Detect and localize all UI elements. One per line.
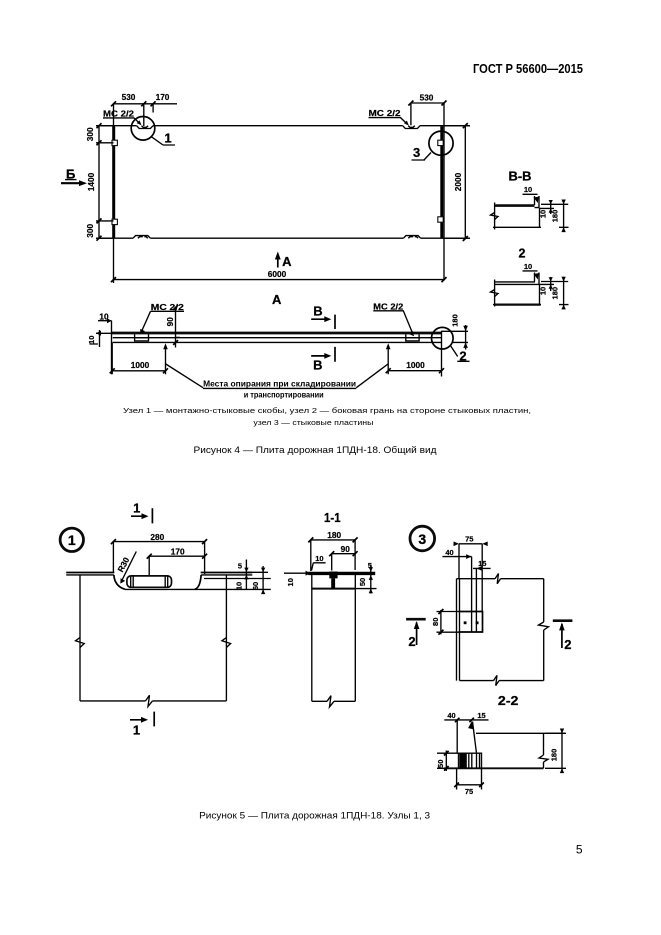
svg-text:1000: 1000 bbox=[131, 360, 150, 370]
2-2 top surface bbox=[476, 732, 565, 734]
2-2 slanted projection line bbox=[473, 722, 477, 753]
svg-text:530: 530 bbox=[122, 92, 136, 102]
section V-V dim 10 right rotated bbox=[540, 200, 569, 214]
svg-text:МС 2/2: МС 2/2 bbox=[151, 302, 184, 312]
break zigzag left bbox=[76, 638, 85, 648]
dim 530 right top bbox=[411, 103, 444, 125]
dim 280 bbox=[113, 542, 204, 574]
bottom edge loop notch left bbox=[133, 236, 150, 239]
detail circle 2 bbox=[432, 327, 454, 349]
svg-text:10: 10 bbox=[538, 287, 547, 295]
joint plate marker right top bbox=[438, 140, 443, 145]
svg-text:узел 3 — стыковые пластины: узел 3 — стыковые пластины bbox=[253, 418, 373, 427]
dim 180 (2-2) bbox=[545, 729, 566, 774]
svg-text:15: 15 bbox=[478, 559, 486, 568]
dim 90 at left loop bbox=[176, 308, 180, 348]
detail 1 leader and label bbox=[152, 137, 176, 145]
loop bar end lines bbox=[131, 576, 168, 587]
dim 80 (detail 3) bbox=[437, 610, 459, 635]
top edge loop notch left bbox=[137, 126, 153, 129]
dim 75 (2-2) bbox=[457, 768, 482, 789]
detail 1 balloon circle bbox=[60, 528, 83, 551]
svg-text:1: 1 bbox=[133, 501, 140, 516]
butt plate rect bbox=[459, 612, 483, 633]
joint plate marker left top bbox=[112, 140, 117, 145]
detail 3 body left double edge bbox=[457, 579, 460, 681]
svg-text:Места опирания при складирован: Места опирания при складировании bbox=[203, 379, 356, 388]
svg-text:В: В bbox=[313, 304, 322, 319]
dim 15 (detail 3) bbox=[473, 568, 491, 632]
body bottom edge bbox=[80, 700, 226, 702]
svg-text:300: 300 bbox=[85, 223, 95, 237]
svg-text:10: 10 bbox=[235, 582, 244, 590]
support points leader and note bbox=[166, 364, 388, 388]
plate left edge thick bbox=[112, 126, 115, 239]
1-1 bracket section bbox=[329, 572, 337, 579]
bottom dim 6000 bbox=[114, 238, 445, 283]
dim 1000 left bbox=[112, 342, 165, 374]
svg-text:10: 10 bbox=[286, 578, 295, 586]
2-2 bottom surface bbox=[444, 767, 544, 769]
dim 180 right end bbox=[442, 325, 469, 350]
svg-text:170: 170 bbox=[171, 546, 185, 556]
svg-text:2: 2 bbox=[459, 348, 466, 363]
plate top edge bbox=[96, 125, 470, 127]
slab top thick line bbox=[112, 332, 442, 335]
dim 90 (1-1) bbox=[332, 554, 355, 571]
svg-text:МС 2/2: МС 2/2 bbox=[103, 109, 134, 119]
svg-text:280: 280 bbox=[150, 532, 164, 542]
svg-text:50: 50 bbox=[436, 760, 445, 768]
bottom edge loop notch right bbox=[403, 236, 420, 239]
svg-text:Рисунок 4 — Плита дорожная 1ПД: Рисунок 4 — Плита дорожная 1ПДН-18. Общи… bbox=[194, 445, 437, 456]
dim 75 (detail 3) bbox=[459, 544, 482, 612]
body left edge bbox=[79, 575, 81, 701]
dim 40 (detail 3) bbox=[442, 557, 471, 632]
svg-text:МС 2/2: МС 2/2 bbox=[369, 108, 401, 118]
svg-text:10: 10 bbox=[524, 262, 532, 271]
detail 3 body right edge bbox=[543, 579, 545, 681]
recess bottom line with extension bbox=[125, 588, 271, 590]
svg-text:3: 3 bbox=[418, 531, 426, 547]
dim 170 bbox=[149, 556, 204, 576]
break zigzag right bbox=[222, 638, 231, 648]
section 2 dim 10 right rotated bbox=[540, 277, 568, 291]
svg-text:1: 1 bbox=[164, 131, 171, 146]
svg-text:6000: 6000 bbox=[268, 269, 287, 279]
recess outline bbox=[114, 575, 201, 589]
section 2 dim 180 right rotated bbox=[559, 277, 569, 310]
svg-text:1: 1 bbox=[133, 723, 140, 738]
loop bracket right bbox=[406, 334, 419, 341]
svg-text:5: 5 bbox=[238, 561, 242, 570]
detail circle 1 bbox=[131, 117, 155, 141]
detail 2 leader and label bbox=[450, 345, 469, 361]
right dim 2000 bbox=[444, 126, 470, 239]
dim 1000 right bbox=[388, 348, 441, 375]
edge step line right bbox=[204, 578, 271, 580]
svg-text:50: 50 bbox=[358, 578, 367, 586]
svg-text:Рисунок 5 — Плита дорожная 1ПД: Рисунок 5 — Плита дорожная 1ПДН-18. Узлы… bbox=[199, 810, 430, 821]
svg-text:180: 180 bbox=[451, 314, 460, 327]
svg-text:В-В: В-В bbox=[509, 170, 532, 184]
svg-text:2: 2 bbox=[408, 634, 415, 649]
svg-text:МС 2/2: МС 2/2 bbox=[373, 301, 403, 311]
section V-V dim 180 right rotated bbox=[559, 200, 569, 233]
svg-text:530: 530 bbox=[420, 92, 434, 102]
svg-text:75: 75 bbox=[465, 535, 473, 544]
plate right edge thick bbox=[440, 126, 443, 238]
svg-text:10: 10 bbox=[538, 210, 547, 218]
detail circle 3 bbox=[429, 131, 453, 155]
1-1 recess bottom thick line bbox=[312, 588, 356, 590]
svg-text:180: 180 bbox=[550, 749, 559, 762]
svg-text:А: А bbox=[272, 292, 282, 307]
top break zigzag bbox=[495, 574, 501, 584]
svg-text:180: 180 bbox=[550, 210, 559, 223]
svg-text:1: 1 bbox=[68, 532, 76, 548]
svg-text:10: 10 bbox=[524, 185, 532, 194]
slab right end vertical bbox=[441, 331, 443, 377]
svg-text:1400: 1400 bbox=[86, 172, 96, 191]
section mark 2 right bbox=[553, 619, 573, 622]
svg-text:75: 75 bbox=[465, 787, 473, 796]
section mark 2 left bbox=[406, 618, 426, 621]
svg-text:170: 170 bbox=[156, 92, 170, 102]
plate edge lower line bbox=[66, 574, 252, 576]
svg-text:90: 90 bbox=[341, 544, 351, 554]
svg-text:Узел 1 — монтажно-стыковые с: Узел 1 — монтажно-стыковые скобы, узел 2… bbox=[123, 406, 531, 415]
svg-text:60: 60 bbox=[251, 582, 260, 590]
svg-text:5: 5 bbox=[576, 843, 583, 857]
slab interior line bbox=[113, 337, 442, 339]
section 2 body bbox=[493, 282, 541, 305]
lifting loop bar bbox=[127, 576, 172, 587]
svg-text:2000: 2000 bbox=[453, 172, 463, 191]
svg-text:10: 10 bbox=[87, 336, 96, 344]
section V-V body bbox=[494, 204, 535, 207]
svg-text:40: 40 bbox=[445, 548, 453, 557]
svg-text:В: В bbox=[313, 357, 322, 372]
2-2 plate bar hatched bbox=[459, 753, 482, 768]
svg-text:15: 15 bbox=[477, 711, 485, 720]
svg-text:10: 10 bbox=[315, 554, 323, 563]
svg-text:2: 2 bbox=[564, 637, 571, 652]
break zigzag bottom bbox=[146, 695, 153, 706]
svg-text:180: 180 bbox=[550, 287, 559, 300]
svg-text:80: 80 bbox=[431, 618, 440, 626]
detail 3 balloon circle bbox=[410, 526, 435, 551]
loop bracket left bbox=[135, 334, 149, 341]
bottom break zigzag bbox=[494, 675, 500, 685]
svg-text:1-1: 1-1 bbox=[324, 511, 341, 525]
view arrow A (bottom of plan) bbox=[277, 256, 279, 268]
body right edge bbox=[225, 575, 227, 701]
svg-text:3: 3 bbox=[413, 145, 420, 160]
svg-text:ГОСТ Р 56600—2015: ГОСТ Р 56600—2015 bbox=[473, 61, 583, 76]
svg-text:2-2: 2-2 bbox=[498, 694, 519, 708]
1-1 body bbox=[312, 575, 356, 701]
svg-text:300: 300 bbox=[85, 127, 95, 141]
svg-text:180: 180 bbox=[327, 530, 341, 540]
slab left end vertical bbox=[111, 321, 113, 375]
svg-text:2: 2 bbox=[519, 247, 526, 261]
detail 3 body top edge bbox=[457, 578, 544, 580]
section 2 break zigzag bbox=[491, 290, 499, 297]
section mark 1 bottom bbox=[130, 712, 154, 727]
detail 3 leader and label bbox=[412, 153, 432, 161]
section V-V break zigzag bbox=[491, 213, 499, 220]
svg-text:90: 90 bbox=[165, 317, 175, 327]
plate edge upper line bbox=[66, 572, 252, 574]
1-1 body top thick line bbox=[308, 572, 375, 575]
joint plate marker left bottom bbox=[112, 219, 117, 224]
slab bottom line bbox=[113, 341, 442, 343]
svg-text:и транспортировании: и транспортировании bbox=[244, 391, 324, 400]
right break zigzag bbox=[539, 622, 549, 630]
top edge loop notch right bbox=[403, 126, 420, 129]
1-1 bottom break zigzag bbox=[327, 696, 334, 707]
2-2 right break vertical bbox=[543, 733, 545, 768]
detail 3 body bottom edge bbox=[460, 680, 544, 682]
dim 180 (1-1) bbox=[311, 540, 355, 571]
left dims 300 1400 300 bbox=[96, 126, 114, 239]
dim 530 left top bbox=[114, 104, 178, 126]
svg-text:40: 40 bbox=[447, 711, 455, 720]
joint plate marker right bottom bbox=[438, 217, 443, 222]
svg-text:А: А bbox=[282, 254, 292, 269]
svg-text:1000: 1000 bbox=[406, 360, 425, 370]
weld dots bbox=[464, 621, 467, 624]
plate bottom edge bbox=[96, 237, 470, 239]
plate right edge thin full bbox=[443, 103, 445, 280]
